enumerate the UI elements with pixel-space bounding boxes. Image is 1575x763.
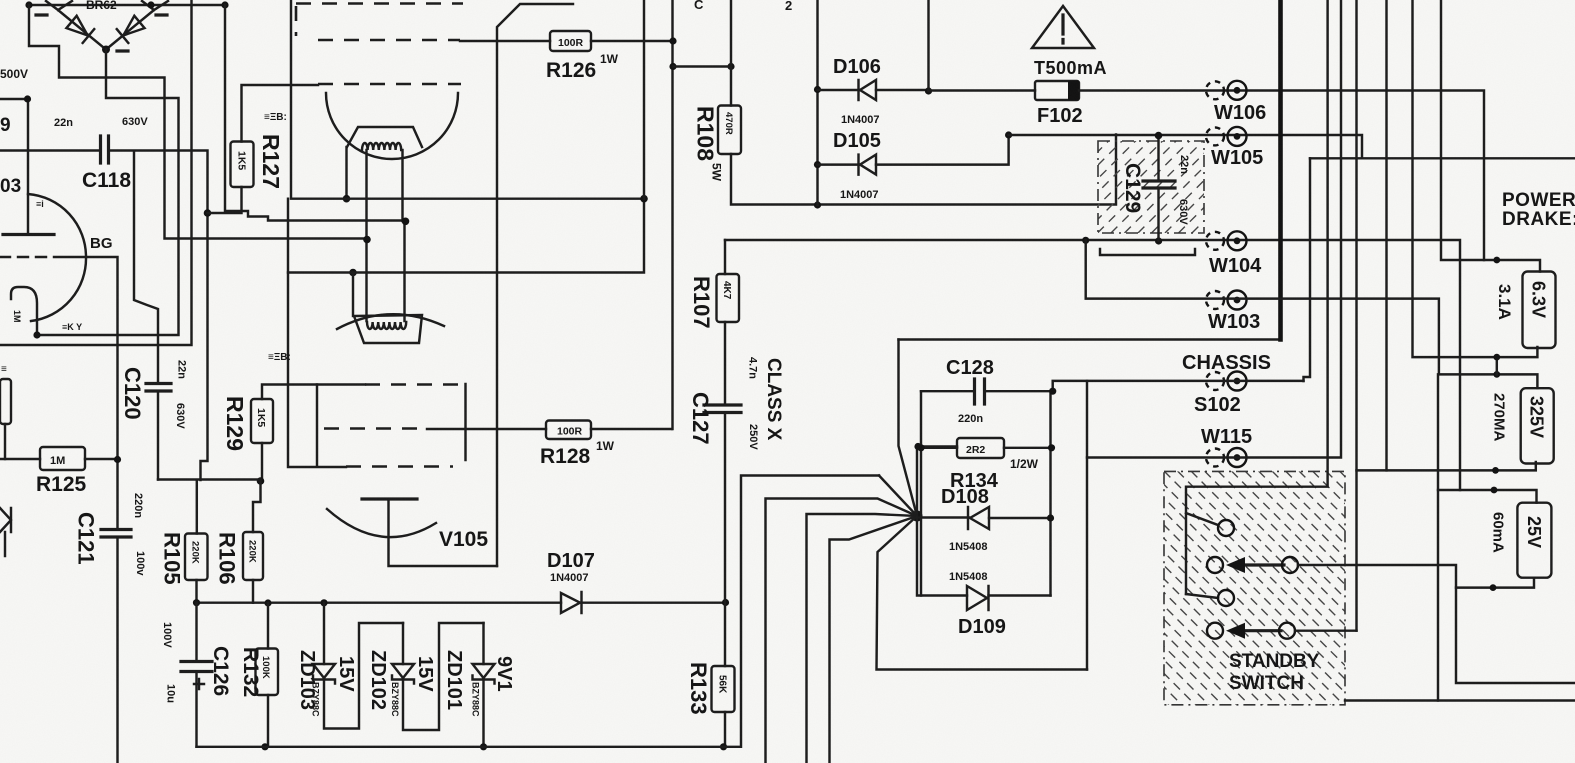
wire fan ray f to R134: [917, 447, 957, 517]
tube V103 envelope: [28, 194, 86, 321]
zener ZD101: [473, 664, 495, 684]
diode D109: [967, 586, 989, 610]
wire V103 grid dashed: [0, 256, 54, 258]
connector S102: [1206, 372, 1247, 391]
node junction: [1048, 444, 1055, 451]
outline C129 box: [1098, 141, 1204, 233]
resistor R108: [718, 106, 741, 155]
switch contact circles upper: [1218, 520, 1234, 536]
wire bridge top bus: [29, 4, 225, 6]
resistor R105: [185, 534, 208, 581]
zener ZD103: [313, 664, 335, 684]
node junction: [640, 195, 648, 203]
wire C128 row: [921, 390, 1053, 392]
node bridge vertex: [102, 46, 110, 54]
wire link to R108 column: [673, 65, 731, 67]
wire 25V top row: [1438, 490, 1537, 503]
wire to R106 top: [253, 481, 261, 532]
wire V103 plate bar: [3, 233, 54, 236]
resistor R129: [251, 399, 273, 443]
wire lower tube box bottom dashed: [346, 465, 453, 468]
wire D105 row: [818, 135, 1009, 165]
node junction: [257, 477, 265, 485]
wire W105 row: [1009, 135, 1362, 158]
wire D109 row right: [989, 594, 1051, 596]
wire D108 to right vertical: [989, 517, 1051, 519]
wire C126 bottom lead: [195, 672, 197, 747]
wire R129 top lead: [262, 385, 365, 400]
wire R106 bottom lead: [252, 580, 254, 603]
wire block right vertical: [1049, 391, 1051, 595]
wire W115 row: [1087, 0, 1341, 458]
diode BR62 left element: [66, 15, 94, 43]
wire R107 top lead: [724, 240, 726, 274]
node junction: [320, 599, 327, 606]
capacitor C127: [704, 405, 741, 413]
wire x672 vertical from top: [671, 0, 673, 429]
tube V105 dashed rows: [324, 385, 458, 429]
wire heater feed from bridge to D: [29, 5, 367, 239]
wire fan ray d: [830, 516, 918, 763]
wire switch pole2 to 325V riser: [1295, 629, 1357, 631]
wire fan ray h to D108: [917, 516, 969, 518]
wire R129 bottom lead: [261, 443, 263, 481]
node node E: [349, 269, 357, 277]
node junction: [480, 743, 487, 750]
wire R107 to C127: [724, 322, 726, 405]
wire C121 bottom exits page: [116, 537, 118, 763]
node node C: [402, 218, 410, 226]
tube V105 envelope bottom arc: [327, 509, 436, 537]
wire heater left lead through D: [365, 150, 367, 321]
wire 325V bottom row: [1357, 462, 1536, 470]
capacitor C118: [101, 136, 109, 163]
wire ZD103 top lead: [323, 603, 325, 664]
node cathode node: [33, 331, 40, 338]
wire upper trapezoid corner to B: [345, 147, 347, 199]
resistor R132: [256, 649, 279, 696]
diode D105: [859, 155, 877, 175]
capacitor C128: [975, 379, 985, 404]
node pin 325V bottom: [1492, 467, 1499, 474]
wire R127 top to tube box: [242, 85, 319, 142]
node junction: [261, 743, 268, 750]
resistor R106: [243, 532, 263, 580]
switch contact circles lower: [1207, 623, 1223, 639]
node pin 25V top: [1491, 487, 1498, 494]
node pin 6.3V top: [1493, 257, 1500, 264]
switch arrow upper: [1243, 563, 1284, 566]
wire AC column: [816, 0, 818, 205]
wire ZD102 to ZD101 link: [403, 623, 484, 730]
capacitor C126 electrolytic: [181, 662, 212, 672]
wire fan ray i to D109: [917, 516, 967, 596]
wire C118 right down to R105 row: [109, 151, 208, 481]
connector W104: [1206, 231, 1247, 250]
wire R108 bottom bus to W105 row: [731, 135, 1116, 205]
resistor R125: [40, 447, 85, 470]
resistor R126: [550, 31, 591, 51]
wire C120 top: [134, 152, 158, 384]
wire fan ray e block bottom: [877, 516, 1088, 670]
wire C127 to R133: [724, 413, 726, 667]
node pin 6.3V bottom: [1493, 354, 1500, 361]
switch arrow lower: [1243, 629, 1281, 632]
heater upper coil: [362, 143, 401, 150]
wire switch pole1 to right exit: [1298, 565, 1575, 683]
connector W115: [1206, 448, 1247, 467]
capacitor C120: [146, 384, 171, 392]
wire fan ray a diag: [879, 476, 917, 517]
resistor R127: [231, 142, 254, 188]
diode D108: [968, 507, 989, 529]
node junction: [147, 1, 154, 8]
resistor R107: [717, 274, 740, 322]
connector W103: [1206, 291, 1247, 310]
node junction: [24, 95, 31, 102]
wire 25V bottom row: [1456, 578, 1534, 588]
node junction: [1047, 514, 1054, 521]
wire W104 row: [725, 240, 1460, 490]
node node A: [204, 209, 212, 217]
node junction: [917, 444, 924, 451]
wire fan ray b: [766, 499, 918, 763]
wire V103 grid lead down to C121: [54, 257, 118, 530]
node junction: [25, 1, 32, 8]
wire V105 cathode stem: [389, 500, 498, 566]
wire block to S102 row: [1053, 381, 1304, 391]
transformer winding 6.3V: [1523, 272, 1556, 349]
resistor R128: [546, 421, 591, 440]
scan noise overlay: [0, 0, 1, 1]
node pin 325V top: [1493, 371, 1500, 378]
bracket under C129: [1100, 249, 1195, 255]
node fan point P: [912, 511, 923, 522]
wire C129 top lead: [1157, 136, 1159, 182]
wire R128 row: [427, 428, 672, 430]
wire R132 top lead: [267, 603, 269, 649]
resistor R134: [957, 438, 1004, 458]
wire C129 bottom lead: [1157, 188, 1159, 241]
wire heater net y199-y272: [288, 0, 644, 273]
wire node A to R127 bottom: [208, 187, 242, 213]
node junction: [727, 63, 734, 70]
wire left net to top: [0, 0, 192, 345]
wire C126 top lead: [195, 603, 197, 661]
node junction: [1155, 132, 1163, 140]
node pin 25V bottom: [1490, 584, 1497, 591]
wire tube box right vertical: [464, 384, 466, 460]
node node D: [363, 236, 371, 244]
wire link 357-374: [1496, 357, 1498, 374]
wire x1386 riser: [1385, 0, 1387, 470]
tube upper dashed electrode rows: [296, 4, 463, 85]
wire bottom right exit: [1345, 699, 1575, 701]
node junction: [114, 456, 121, 463]
node junction: [1049, 388, 1056, 395]
wire to F102: [929, 89, 1036, 91]
wire x928 from top: [927, 0, 929, 91]
wire 325V bottom riser and switch: [1355, 0, 1357, 631]
wire fan ray g chassis riser: [899, 340, 918, 517]
wire 6.3V bottom row: [1413, 0, 1538, 357]
wire switch upper common: [1186, 0, 1328, 594]
wire bridge left arm: [46, 1, 106, 50]
wire x225 bus to heater C line: [225, 5, 406, 221]
wire R105 bottom lead: [195, 580, 197, 603]
capacitor C121: [101, 530, 131, 538]
connector W105: [1206, 127, 1247, 146]
diode D107: [561, 592, 582, 613]
node junction: [193, 599, 200, 606]
heater upper trapezoid: [347, 127, 422, 147]
wire V103 cathode hook: [11, 287, 37, 335]
wire bottom bus up to fan: [197, 476, 880, 747]
wire R133 bottom lead: [724, 712, 726, 747]
wire W103 net to 325V top: [1086, 240, 1538, 388]
wire C120 bottom: [157, 391, 159, 480]
node junction: [669, 37, 676, 44]
tube upper envelope arc: [326, 93, 458, 159]
wire V103 plate lead: [27, 99, 29, 235]
wire D106 row left: [818, 89, 929, 91]
resistor R133: [712, 666, 735, 712]
node junction: [914, 443, 921, 450]
diode BR62 right element: [117, 15, 145, 43]
heater V105 trapezoid: [354, 315, 422, 343]
node node B: [343, 195, 351, 203]
wire x1438 down: [1437, 374, 1439, 700]
wire R134 row: [921, 447, 1051, 449]
wire S102 riser: [1304, 158, 1311, 381]
capacitor C129: [1143, 181, 1175, 188]
wire stub to contact 1: [1186, 513, 1218, 525]
wire bridge vertex to V103 cathode: [37, 50, 179, 336]
wire R105 top lead: [196, 481, 198, 534]
wire chassis row: [899, 338, 1281, 340]
wire heater right lead through C: [403, 150, 405, 321]
wire ZD101 leads: [482, 623, 484, 747]
transformer winding 25V: [1517, 503, 1551, 578]
wire tube box inner vertical: [316, 385, 318, 467]
node junction: [720, 743, 727, 750]
connector W106: [1206, 81, 1247, 100]
fuse F102: [1035, 81, 1079, 100]
wire y480 row: [158, 478, 261, 480]
node junction: [1082, 237, 1089, 244]
wire R108 top: [730, 0, 732, 106]
outline standby switch box: [1164, 471, 1345, 704]
cathode V105 bar: [362, 497, 417, 500]
wire R125 row: [0, 458, 118, 460]
wire x288 down to tube box bottom: [288, 199, 346, 467]
wire chassis thick bus: [1278, 0, 1283, 340]
wire stub to contact 3: [1186, 594, 1218, 598]
wire R126 row: [460, 40, 673, 42]
diode left edge partial: [0, 508, 11, 556]
node junction: [221, 1, 228, 8]
wire 6.3V top feed: [1441, 0, 1540, 272]
tube V105 envelope top arc: [337, 314, 444, 329]
wire E to lower trapezoid: [352, 273, 354, 317]
diode D106: [859, 80, 877, 100]
warning triangle: [1032, 6, 1094, 48]
node junction: [1005, 131, 1012, 138]
label minus marks of bridge: [36, 15, 167, 51]
wire block left vertical: [920, 391, 922, 595]
wire left partial resistor lead: [4, 424, 6, 459]
node junction: [925, 87, 932, 94]
wire ZD103 to ZD102 link: [324, 623, 403, 729]
wire C118 left: [0, 149, 101, 151]
node junction: [722, 599, 729, 606]
heater V105 coil: [367, 322, 406, 329]
wire y158 line to right edge: [1310, 157, 1575, 159]
wire bridge right arm: [106, 1, 168, 50]
wire x497 heater bus to top: [497, 4, 573, 566]
node junction: [1155, 237, 1162, 244]
node junction: [264, 599, 271, 606]
wire S102 down to block bottom: [1086, 381, 1088, 670]
node junction: [814, 201, 821, 208]
node junction: [669, 63, 676, 70]
resistor left edge partial: [0, 379, 11, 424]
wire W106 row to 6.3V feed: [1079, 91, 1484, 261]
transformer winding 325V: [1521, 388, 1554, 463]
zener ZD102: [392, 664, 414, 684]
wire x644 from top: [643, 0, 645, 199]
wire left edge to plate lead: [0, 98, 28, 100]
wire y603 net to D107: [197, 601, 726, 603]
wire R132 bottom lead: [267, 695, 269, 747]
wire fan ray c: [807, 514, 918, 763]
node junction: [814, 86, 821, 93]
node junction: [814, 161, 821, 168]
